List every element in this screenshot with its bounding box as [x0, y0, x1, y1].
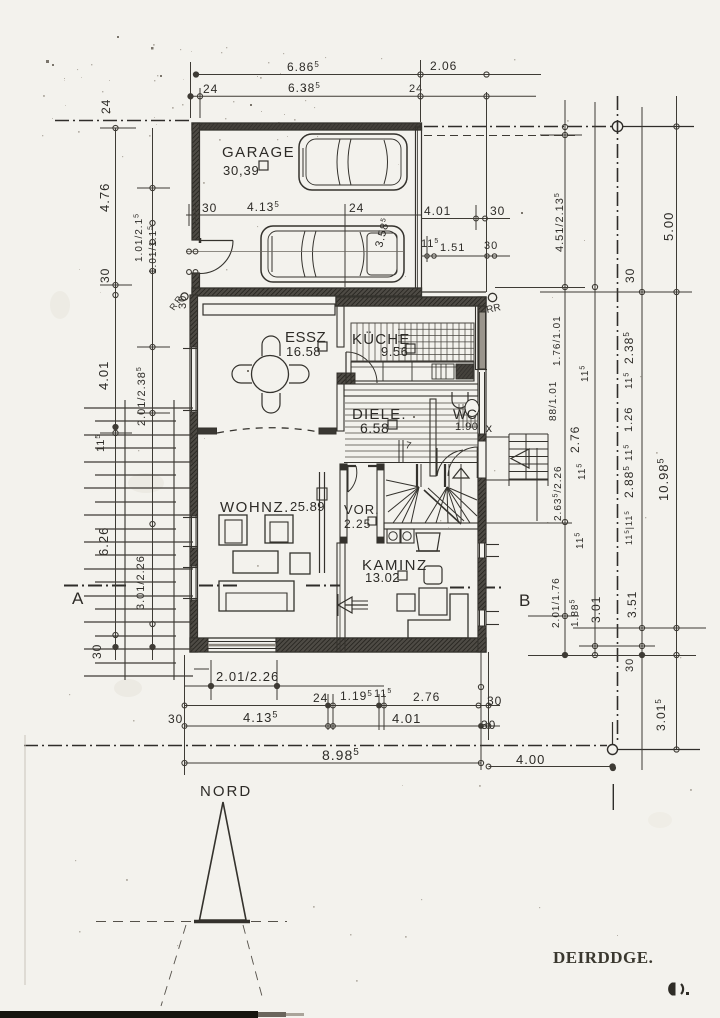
tick above bottom corner circle	[612, 722, 614, 744]
top dim line 6.86/2.06	[196, 74, 541, 76]
wall stub at ESSZ door right	[337, 373, 355, 384]
bottom dim line 8.98/4.00	[185, 762, 482, 764]
svg-text:1.01/1.15: 1.01/1.15	[148, 225, 160, 274]
VOR jamb bottom-right	[377, 537, 384, 543]
ESSZ sideboard along top wall	[203, 304, 335, 315]
WOHNZ side table	[290, 553, 310, 574]
right dim vertical D (x=676.5)	[676, 96, 678, 750]
stair top riser line 2	[402, 440, 404, 462]
svg-text:9.56: 9.56	[381, 344, 408, 359]
small arrow line above 2.01 dim	[194, 668, 209, 670]
window sill	[183, 517, 197, 519]
left dim vertical 2	[152, 128, 154, 660]
partition WOHNZ right (shelf wall)	[319, 472, 321, 573]
svg-text:30: 30	[90, 644, 104, 659]
VOR top wall stubs	[347, 465, 356, 467]
wall KUECHE/DIELE horizontal	[344, 384, 478, 396]
kitchen counter row	[351, 362, 474, 381]
svg-text:30: 30	[202, 201, 217, 215]
WOHNZ coffee table	[233, 551, 278, 573]
house bottom wall	[190, 638, 486, 652]
section line A-A / B-B	[64, 585, 130, 587]
stair top riser line	[398, 440, 400, 462]
dashed opening ESSZ-WOHNZ	[217, 428, 319, 433]
left wall solid segments	[190, 295, 198, 347]
svg-text:6.58: 6.58	[360, 420, 389, 436]
extension line left wall outer	[190, 62, 192, 118]
svg-text:30: 30	[487, 694, 502, 708]
svg-text:1.26: 1.26	[623, 407, 635, 432]
svg-text:4.01: 4.01	[96, 361, 111, 390]
garage door (person) arc	[200, 240, 233, 242]
KAMINZ window 2 in right wall	[479, 610, 481, 626]
garage bottom wall / wall to ESSZ	[192, 288, 422, 296]
ESSZ window in left wall	[191, 347, 193, 412]
small mark bottom right	[669, 983, 675, 995]
window sill	[183, 410, 197, 412]
svg-text:30: 30	[490, 204, 505, 218]
window sill	[486, 556, 499, 558]
top dim line 24/6.38/24	[191, 95, 537, 97]
svg-text:1.90: 1.90	[455, 421, 478, 433]
stair arrow shaft	[460, 464, 462, 523]
wall below stair	[384, 523, 478, 529]
bottom dim line 30/4.135/4.01/30	[185, 725, 501, 727]
svg-text:1.51: 1.51	[440, 242, 465, 254]
base dashed left	[96, 921, 193, 923]
svg-text:4.76: 4.76	[97, 183, 112, 212]
garage interior dim line 30/4.135/24	[186, 214, 421, 216]
area square DIELE	[388, 420, 397, 429]
WOHNZ sofa	[219, 581, 294, 611]
kitchen top wall	[336, 297, 486, 306]
svg-text:3.51: 3.51	[625, 591, 639, 618]
VOR door arc	[348, 466, 357, 492]
svg-text:GARAGE: GARAGE	[222, 144, 295, 161]
house right wall	[478, 297, 486, 652]
KAMINZ armchair	[424, 566, 442, 584]
ESSZ chair right	[289, 365, 309, 383]
right horizontals	[540, 134, 582, 136]
extension line house right wall	[486, 92, 488, 292]
diamond below corner circle	[610, 765, 615, 770]
svg-text:30: 30	[484, 240, 498, 252]
left wall small dim circles	[187, 270, 192, 275]
svg-text:2.01/2.26: 2.01/2.26	[216, 669, 279, 684]
svg-text:6.26: 6.26	[96, 527, 111, 556]
window sill	[486, 624, 499, 626]
garage left wall	[192, 123, 200, 240]
extension line left wall inner	[199, 88, 201, 118]
wall WC/DIELE	[430, 399, 436, 476]
svg-text:115|115: 115|115	[624, 510, 634, 545]
left dim vertical 1	[115, 128, 117, 660]
terrace pergola slats	[84, 400, 193, 680]
svg-text:13.02: 13.02	[365, 570, 400, 585]
property line bottom	[24, 745, 607, 747]
svg-text:x: x	[486, 421, 492, 435]
faint left edge scan line	[24, 735, 26, 985]
WOHNZ window 2 in left wall	[191, 566, 193, 600]
svg-text:4.01: 4.01	[424, 204, 451, 218]
svg-text:2.06: 2.06	[430, 59, 457, 73]
VOR jamb bottom-left	[340, 537, 347, 543]
svg-text:4.00: 4.00	[516, 752, 545, 767]
chair trapezoid at KAMINZ top	[416, 533, 440, 551]
svg-text:24: 24	[203, 82, 218, 96]
svg-text:24: 24	[99, 99, 113, 114]
entry sidelight window next to door	[479, 372, 481, 434]
front door swing arc	[448, 447, 478, 476]
svg-text:30: 30	[98, 268, 112, 283]
ESSZ-KUECHE door arc	[345, 352, 347, 383]
KUECHE tiled floor hatch	[351, 323, 474, 361]
bottom wall window (WOHNZ terrace door)	[208, 641, 276, 643]
WC floor hatch	[459, 404, 475, 428]
KAMINZ small table	[397, 594, 415, 611]
svg-text:30,39: 30,39	[223, 163, 260, 178]
WOHNZ armchair 2	[265, 515, 293, 543]
KAMINZ left wall	[337, 543, 345, 652]
front door leaf	[477, 447, 479, 478]
faint photocopy smudges	[128, 473, 164, 493]
bottom dim line 2.01/2.26	[185, 685, 385, 687]
car 2 (bottom, in garage)	[261, 226, 404, 282]
svg-text:2.76: 2.76	[568, 426, 582, 453]
svg-text:VOR.: VOR.	[344, 502, 380, 517]
window sill	[486, 544, 499, 546]
car 1 (top, in garage)	[299, 134, 407, 190]
KAMINZ L sofa	[408, 594, 468, 638]
stair direction arrow	[453, 468, 469, 478]
svg-text:WOHNZ.: WOHNZ.	[220, 499, 290, 516]
svg-text:1.01/2.15: 1.01/2.15	[134, 213, 146, 262]
house left wall	[190, 295, 198, 652]
svg-text:4.01: 4.01	[392, 711, 421, 726]
svg-text:10.985: 10.985	[656, 457, 672, 501]
svg-text:5.00: 5.00	[661, 212, 676, 241]
stove unit dark	[456, 364, 473, 379]
garage right wall	[416, 127, 422, 290]
svg-text:WC: WC	[453, 406, 477, 422]
svg-text:A: A	[72, 589, 84, 608]
svg-text:30: 30	[624, 658, 636, 672]
interior winder stair	[386, 464, 477, 524]
dishwasher front	[432, 364, 454, 379]
property line to right edge	[623, 126, 694, 128]
window sill	[183, 567, 197, 569]
door jamb	[199, 238, 202, 243]
dim line right of garage 11/1.51/30	[421, 255, 510, 257]
WC sink	[452, 392, 468, 408]
setback dashed line right	[424, 135, 580, 137]
area square ESSZ	[318, 342, 327, 351]
railing line right of stair	[536, 448, 538, 521]
flue box on partition	[317, 488, 327, 500]
window sill	[183, 348, 197, 350]
svg-text:2.01/1.76: 2.01/1.76	[551, 577, 562, 628]
KAMINZ table big	[419, 588, 447, 615]
exterior stair arrow	[511, 449, 529, 468]
extension line garage right wall	[420, 60, 422, 122]
svg-text:2.76: 2.76	[413, 690, 440, 704]
base dashed right	[251, 921, 287, 923]
window sill	[486, 611, 499, 613]
ESSZ chair top	[262, 336, 280, 356]
fixtures between VOR and KAMINZ (stove/boiler)	[387, 529, 400, 543]
KAMINZ window 1 in right wall	[479, 543, 481, 558]
svg-text:88/1.01: 88/1.01	[548, 381, 559, 421]
area square VOR	[368, 517, 376, 525]
small O RR mark right of kitchen corner	[488, 293, 496, 301]
VOR right wall	[377, 464, 384, 543]
dashed splay right	[243, 925, 263, 1000]
svg-text:24: 24	[409, 83, 423, 95]
wall ESSZ/KUECHE upper	[337, 306, 344, 347]
property line right vertical	[617, 96, 619, 744]
WC toilet	[465, 400, 479, 417]
window sill	[183, 598, 197, 600]
right dim vertical C (x=642)	[641, 107, 643, 770]
bottom dim line 24/1.19/11/2.76/30	[185, 705, 501, 707]
svg-text:1.76/1.01: 1.76/1.01	[552, 315, 563, 366]
svg-text:NORD: NORD	[200, 783, 252, 800]
left dim small cross ticks	[100, 284, 132, 286]
DIELE bottom / stair top line	[344, 462, 478, 464]
WOHNZ armchair 1	[219, 515, 247, 545]
wall ESSZ/DIELE lower	[337, 384, 344, 431]
garage top wall	[192, 123, 422, 130]
wall stub left of opening	[198, 428, 217, 434]
VOR jamb top-right	[377, 464, 384, 470]
svg-text:24: 24	[313, 691, 328, 705]
svg-text:3.01: 3.01	[589, 596, 603, 623]
svg-text:16.58: 16.58	[286, 344, 321, 359]
svg-text:2.635/2.26: 2.635/2.26	[553, 465, 565, 521]
short tail of property vertical	[612, 784, 614, 810]
kitchen chimney shaft in right wall	[479, 312, 486, 369]
property corner circle bottom	[608, 745, 618, 755]
bottom dim verticals	[184, 655, 186, 775]
property line top-right	[424, 126, 614, 128]
ESSZ dining table	[252, 356, 289, 393]
svg-text:DEIRDDGE.: DEIRDDGE.	[553, 948, 653, 967]
area square KAMINZ	[398, 571, 407, 580]
exterior entrance stair	[486, 434, 548, 486]
VOR jamb top-left	[340, 464, 347, 470]
dim line right of garage 4.01/30	[421, 218, 510, 220]
WOHNZ window 1 in left wall	[191, 516, 193, 548]
area square KUECHE	[406, 344, 415, 353]
svg-text:25.89: 25.89	[290, 499, 325, 514]
north arrow base bar	[194, 920, 250, 924]
svg-text:4.51/2.135: 4.51/2.135	[554, 192, 566, 252]
garage centerline through car/door	[186, 251, 404, 253]
thin eave line over kitchen	[422, 291, 487, 293]
right dim vertical B (x=595)	[594, 102, 596, 655]
ESSZ chair bottom	[262, 393, 280, 413]
property line top-left	[55, 120, 190, 122]
ESSZ chair left	[232, 365, 252, 383]
svg-text:30: 30	[168, 712, 183, 726]
svg-text:B: B	[519, 591, 531, 610]
dashed splay left	[161, 925, 186, 1006]
svg-text:30: 30	[481, 718, 496, 732]
svg-text:30: 30	[623, 268, 637, 283]
svg-text:24: 24	[349, 201, 364, 215]
WC door arc	[437, 450, 463, 476]
DIELE plank floor lines	[345, 403, 478, 457]
wall stub right of opening	[319, 428, 336, 434]
svg-text:2.25: 2.25	[344, 517, 371, 531]
fireplace symbol	[338, 597, 352, 613]
area square GARAGE	[259, 161, 268, 170]
north arrow triangle	[200, 802, 247, 920]
garage left wall lower piece (below door)	[192, 273, 200, 295]
bottom scan black bar	[0, 1011, 258, 1018]
window sill	[183, 546, 197, 548]
property corner circle	[612, 121, 622, 131]
right dim vertical A (x=565)	[564, 100, 566, 655]
svg-text:2.01/2.385: 2.01/2.385	[136, 366, 148, 426]
VOR left wall	[340, 464, 347, 543]
